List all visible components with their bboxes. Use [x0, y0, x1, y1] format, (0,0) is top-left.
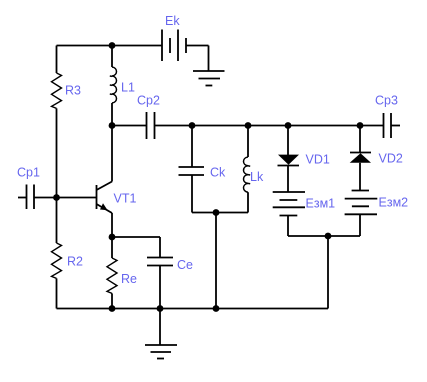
- svg-text:VD1: VD1: [306, 153, 330, 167]
- svg-text:R2: R2: [67, 255, 83, 269]
- svg-text:R3: R3: [65, 84, 81, 98]
- svg-text:Езм2: Езм2: [379, 196, 409, 210]
- svg-text:Ck: Ck: [210, 166, 226, 180]
- svg-text:Cp3: Cp3: [375, 94, 398, 108]
- svg-text:L1: L1: [121, 81, 135, 95]
- svg-text:Cp2: Cp2: [137, 94, 160, 108]
- svg-text:Езм1: Езм1: [306, 197, 336, 211]
- svg-text:VD2: VD2: [379, 152, 403, 166]
- svg-text:Lk: Lk: [250, 170, 264, 184]
- svg-text:Re: Re: [121, 272, 137, 286]
- svg-text:Ek: Ek: [165, 14, 180, 28]
- svg-text:Ce: Ce: [177, 258, 193, 272]
- svg-text:VT1: VT1: [114, 192, 137, 206]
- svg-text:Cp1: Cp1: [17, 166, 40, 180]
